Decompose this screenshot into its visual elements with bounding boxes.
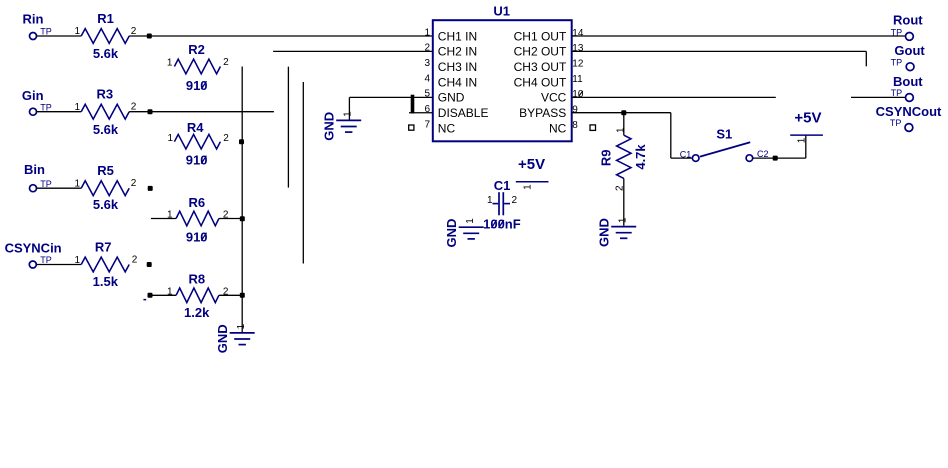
capacitor C1 right plate [502,192,504,215]
svg-text:Gout: Gout [894,43,925,58]
wire U1 pin10 VCC [572,96,776,98]
svg-text:R6: R6 [188,195,205,210]
vertical wire CH3 column [287,67,289,188]
thick junction bar pin5-pin6 [411,95,415,114]
wire U1 pin13 toward Gout [572,50,867,52]
svg-text:1: 1 [74,178,80,189]
test point TP Rout (terminal circle) [906,33,914,41]
svg-text:R5: R5 [97,163,114,178]
ground symbol near C1 [444,218,484,248]
test point TP Bout (terminal circle) [906,94,914,102]
svg-text:1: 1 [523,184,534,190]
capacitor C1 left plate [498,192,500,215]
svg-text:5.6k: 5.6k [93,122,119,137]
capacitor C1 pin1 lead [493,203,499,205]
resistor R6 [176,211,219,226]
svg-text:9: 9 [572,105,578,116]
wire U1 pin14 to Rout [572,35,906,37]
wire R8 pin1 lead [150,294,176,296]
svg-text:S1: S1 [716,127,732,142]
svg-text:TP: TP [891,57,903,67]
ground symbol below R9 [596,217,636,247]
wire U1 pin6 DISABLE stub [409,112,433,114]
wire CSYNCin to R7 pin1 [37,264,81,266]
svg-text:2: 2 [512,195,518,206]
svg-text:TP: TP [40,255,52,265]
svg-text:14: 14 [572,28,584,39]
svg-text:R3: R3 [96,86,113,101]
svg-text:R2: R2 [188,42,205,57]
resistor R9 [617,135,631,178]
svg-text:CH4 OUT: CH4 OUT [514,75,567,89]
svg-text:VCC: VCC [541,91,567,105]
svg-text:7: 7 [424,119,430,130]
svg-text:1: 1 [796,137,807,143]
test point TP Bin (terminal circle) [30,185,37,192]
wire to switch C1 [671,157,693,159]
svg-text:CH1 OUT: CH1 OUT [514,29,567,43]
svg-text:4: 4 [424,73,430,84]
svg-text:CH4 IN: CH4 IN [438,75,477,89]
junction node Rin/R1/R2 [147,34,152,39]
svg-text:GND: GND [596,218,611,247]
svg-text:Bin: Bin [24,162,45,177]
svg-text:R9: R9 [598,149,613,166]
svg-text:1: 1 [74,255,80,266]
junction R6 pin2 on ground rail [240,216,245,221]
svg-text:R7: R7 [95,240,112,255]
capacitor C1 pin2 lead [504,203,510,205]
svg-text:100nF: 100nF [483,217,521,232]
switch S1 terminal C1 circle [692,155,699,162]
svg-text:1: 1 [342,111,353,117]
svg-text:1: 1 [236,323,247,329]
svg-text:R4: R4 [187,120,204,135]
svg-text:2: 2 [223,57,229,68]
wire R6 pin1 lead [151,218,176,220]
wire U1 pin2 stub [273,50,433,52]
wire R3 pin2 toward U1 pin2 column [129,111,274,113]
svg-text:4.7k: 4.7k [633,144,648,170]
wire Rin to R1 pin1 [37,35,81,37]
svg-text:GND: GND [215,324,230,353]
junction node BYPASS/R9 [621,110,626,115]
svg-text:GND: GND [438,91,465,105]
svg-text:1: 1 [615,127,626,133]
svg-text:1: 1 [74,26,80,37]
wire R8 pin2 to ground rail [219,294,242,296]
svg-text:CH3 OUT: CH3 OUT [514,60,567,74]
resistor R5 [81,181,129,196]
op-amp U1 body [433,20,572,141]
junction node Gin/R3/R4 [148,109,153,114]
svg-text:5.6k: 5.6k [93,197,119,212]
svg-text:TP: TP [40,179,52,189]
svg-text:CSYNCin: CSYNCin [5,240,62,255]
svg-text:1: 1 [74,102,80,113]
svg-text:1: 1 [168,133,174,144]
switch S1 blade [700,142,750,156]
svg-text:DISABLE: DISABLE [438,106,489,120]
junction R4 pin2 on ground rail [239,139,244,144]
wire R1 pin2 to U1 pin1 [129,35,433,37]
svg-text:1: 1 [465,218,476,224]
wire U1 pin9 BYPASS [572,112,671,114]
svg-text:Bout: Bout [893,74,923,89]
wire Bin to R5 pin1 [37,187,81,189]
svg-text:Gin: Gin [22,88,44,103]
svg-text:CH3 IN: CH3 IN [438,60,477,74]
svg-text:BYPASS: BYPASS [519,106,566,120]
svg-text:TP: TP [40,102,52,112]
no-connect square U1 pin8 [590,125,596,130]
svg-text:Rout: Rout [893,13,923,28]
svg-text:2: 2 [223,133,229,144]
svg-text:3: 3 [424,58,430,69]
resistor R3 [81,104,129,119]
junction node Bin/R5/R6 [148,186,153,191]
stray tick mark left of R8 [143,299,146,301]
no-connect square U1 pin7 [409,125,414,130]
svg-text:1: 1 [167,210,173,221]
svg-text:GND: GND [444,219,459,248]
svg-text:CH2 IN: CH2 IN [438,45,477,59]
wire Gin to R3 pin1 [37,111,81,113]
wire R9 pin2 to ground [623,178,625,225]
svg-text:11: 11 [572,74,583,85]
svg-text:+5V: +5V [518,156,545,173]
ground rail vertical wire [241,67,243,333]
svg-text:R8: R8 [188,271,205,286]
svg-text:U1: U1 [493,4,510,19]
resistor R2 [174,59,220,74]
svg-text:GND: GND [321,112,336,141]
svg-text:1: 1 [167,287,173,298]
resistor R8 [176,288,219,303]
wire U1 pin5 down to ground [348,97,350,119]
wire U1 pin5 GND to left [349,96,432,98]
wire bypass down [670,113,672,158]
svg-text:2: 2 [131,178,137,189]
vertical wire CH4 column [302,82,304,264]
resistor R4 [174,134,220,149]
test point TP CSYNCout (terminal circle) [905,124,913,132]
svg-text:8: 8 [572,120,578,131]
svg-text:1: 1 [424,27,430,38]
svg-text:1.5k: 1.5k [93,274,119,289]
wire up to +5V bar [805,135,807,158]
svg-text:TP: TP [891,27,903,37]
svg-text:NC: NC [438,121,456,135]
ground symbol for U1 pin5 [321,111,361,141]
junction R8 pin2 on ground rail [240,293,245,298]
+5V power symbol at switch [790,109,823,143]
wire to Bout [851,96,906,98]
wire R6 pin2 to ground rail [219,218,242,220]
ground symbol at bottom of rail [215,323,255,353]
svg-text:Rin: Rin [23,12,44,27]
svg-text:1: 1 [617,217,628,223]
junction node CSYNCin/R7/R8 [147,262,152,267]
junction R8 pin1 node [148,293,153,298]
svg-text:CSYNCout: CSYNCout [876,104,942,119]
svg-text:TP: TP [891,88,903,98]
svg-text:C1: C1 [680,149,692,159]
resistor R1 [81,29,129,44]
test point TP Gin (terminal circle) [30,108,37,115]
+5V power symbol near C1 [516,156,549,190]
wire C2 to +5V [753,157,806,159]
svg-text:10: 10 [572,89,584,100]
svg-text:CH1 IN: CH1 IN [438,29,477,43]
test point TP CSYNCin (terminal circle) [29,261,36,268]
svg-text:2: 2 [131,26,137,37]
svg-text:TP: TP [890,118,902,128]
svg-text:NC: NC [549,121,567,135]
test point TP Gout (terminal circle) [906,63,914,71]
svg-text:5.6k: 5.6k [93,46,119,61]
svg-text:1.2k: 1.2k [184,305,210,320]
svg-text:CH2 OUT: CH2 OUT [514,45,567,59]
junction right of C2 [773,156,778,161]
wire R9 pin1 lead [623,113,625,136]
wire Gout vertical drop [865,51,867,66]
switch S1 terminal C2 circle [746,155,753,162]
svg-text:2: 2 [132,254,138,265]
test point TP Rin (terminal circle) [30,33,37,40]
svg-text:1: 1 [167,58,173,69]
svg-text:TP: TP [40,27,52,37]
svg-text:2: 2 [131,102,137,113]
resistor R7 [81,257,129,272]
svg-text:R1: R1 [97,11,114,26]
svg-text:+5V: +5V [794,109,821,126]
svg-text:C1: C1 [494,178,511,193]
svg-text:12: 12 [572,59,584,70]
svg-text:1: 1 [487,195,493,206]
svg-text:13: 13 [572,43,584,54]
